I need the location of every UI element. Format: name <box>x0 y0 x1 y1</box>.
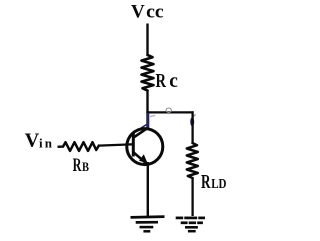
svg-text:B: B <box>82 159 89 174</box>
svg-text:V: V <box>131 2 145 23</box>
wire branch down to RLD top <box>191 111 193 143</box>
ground (emitter) <box>131 217 165 232</box>
annotation blue tick at circle top <box>140 125 147 129</box>
svg-text:cc: cc <box>146 2 164 23</box>
wire emitter to ground <box>147 162 149 216</box>
svg-text:c: c <box>169 70 178 92</box>
annotation blue stroke over collector wire <box>147 113 150 128</box>
annotation small circle on branch wire <box>166 108 171 112</box>
annotation gray tick right corner <box>193 114 195 116</box>
wire Vin lead <box>58 145 64 148</box>
wire Vcc to Rc top <box>146 24 148 56</box>
resistor RB <box>63 142 99 151</box>
svg-text:R: R <box>73 156 82 176</box>
label Rc <box>156 70 179 92</box>
resistor RLD <box>187 143 198 178</box>
transistor Q1 emitter arrowhead <box>139 154 148 163</box>
svg-text:R: R <box>201 172 211 193</box>
annotation blue dot on right wire <box>190 117 194 126</box>
transistor Q1 emitter stroke <box>134 152 148 164</box>
wire RLD bottom to ground <box>191 178 193 217</box>
annotation gray dash left <box>150 115 155 116</box>
svg-text:in: in <box>39 136 54 151</box>
svg-text:LD: LD <box>211 177 226 192</box>
transistor Q1 base bar <box>132 134 135 157</box>
resistor Rc <box>142 55 154 91</box>
wire RB to base <box>99 144 133 145</box>
wire collector node to RLD branch (horizontal) <box>146 111 193 113</box>
svg-text:R: R <box>156 70 167 92</box>
label RB <box>73 156 90 176</box>
ground (RLD) <box>176 218 205 231</box>
transistor Q1 collector stroke <box>134 128 149 138</box>
power label Vcc <box>131 2 164 23</box>
label RLD <box>201 172 227 193</box>
input label Vin <box>25 129 54 151</box>
svg-text:V: V <box>25 129 40 151</box>
transistor Q1 circle <box>127 129 163 165</box>
wire Rc bottom to collector node <box>146 91 148 129</box>
